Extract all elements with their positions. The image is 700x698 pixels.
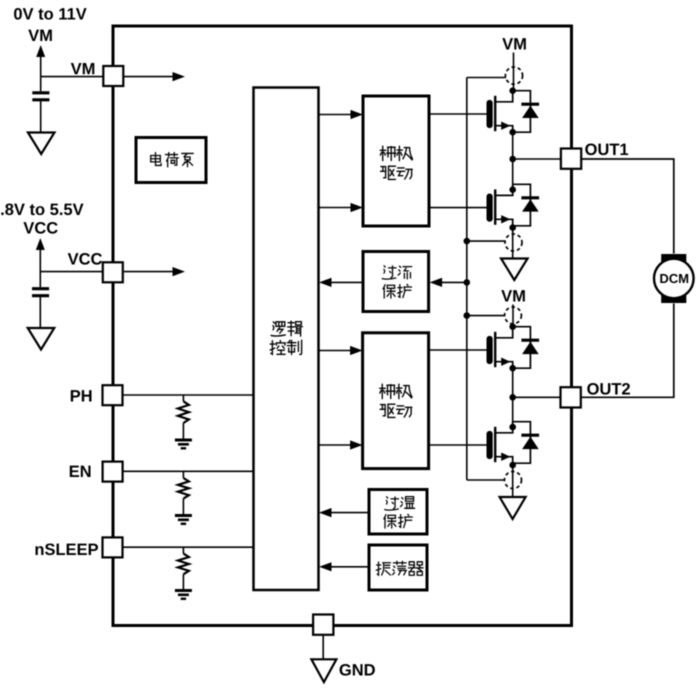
pin GND	[313, 615, 333, 635]
wire OUT2 to motor	[581, 304, 674, 398]
source node dot Q1	[509, 129, 516, 136]
overcurrent protection label	[382, 266, 396, 279]
rail junction dot at low FET 1	[464, 238, 471, 245]
overtemperature protection box 过温保护	[369, 490, 427, 535]
current-limit dashed circle VM2	[505, 307, 522, 324]
wire Q3 source to OUT2 node	[512, 368, 514, 397]
wire VM supply to pin	[41, 76, 104, 78]
ground symbol GND	[311, 659, 336, 682]
source node dot Q3	[509, 365, 516, 372]
motor terminal cap top	[661, 254, 686, 262]
pin label EN	[70, 466, 91, 477]
gate lead high-side FET 1	[429, 113, 487, 115]
arrow VCC into chip	[124, 271, 180, 273]
ground symbol R-PH	[175, 440, 192, 448]
net label VM bridge2	[501, 290, 525, 301]
arrow logic to gate drive 2 input A	[319, 350, 359, 352]
gate lead high-side FET 2	[429, 349, 487, 351]
oscillator label 振荡器	[376, 562, 390, 575]
wire Q2 source through current source to ground	[512, 228, 514, 259]
oscillator box 振荡器	[369, 545, 427, 590]
drain node dot Q4	[509, 424, 516, 431]
current sense rail vertical	[466, 78, 468, 481]
drain node dot Q2	[509, 186, 516, 193]
wire OUT2 node down to Q4 drain	[512, 397, 514, 427]
wire Q4 source through current source to ground	[512, 465, 514, 496]
pin VCC	[103, 262, 123, 282]
pin label VCC	[68, 253, 102, 265]
OUT2 node dot	[509, 394, 516, 401]
wire GND pin to ground symbol	[322, 635, 324, 660]
pin OUT2	[561, 387, 581, 407]
supply net label VCC	[23, 222, 57, 234]
pin VM	[103, 66, 123, 86]
overcurrent protection box 过流保护	[363, 252, 429, 312]
resistor R-nSLEEP pulldown	[182, 547, 184, 553]
motor terminal cap bottom	[661, 295, 686, 303]
arrow logic to gate drive 1 input B	[319, 207, 359, 209]
source node dot Q4	[509, 462, 516, 469]
pin EN	[103, 462, 123, 482]
wire OUT1 node to pin	[513, 158, 561, 160]
high-side NMOS Q3 with body diode	[487, 336, 493, 364]
pin OUT1	[561, 149, 581, 169]
rail junction dot at OCP tap	[464, 279, 471, 286]
gate lead low-side FET 2	[429, 444, 487, 446]
pin label OUT2	[587, 383, 630, 395]
pin label OUT1	[585, 143, 628, 155]
resistor R-PH pulldown	[182, 395, 184, 401]
rail branch to low FET 1 current source	[467, 240, 505, 242]
supply net label VM	[28, 30, 52, 41]
wire OUT1 node down to Q2 drain	[512, 159, 514, 190]
arrow overcurrent protection to logic	[324, 281, 363, 283]
current-limit dashed circle low bridge2	[505, 472, 522, 489]
logic control box 逻辑控制	[254, 88, 319, 591]
gate lead low-side FET 1	[429, 207, 487, 209]
capacitor C-VM	[40, 77, 42, 92]
ground symbol VCC cap	[28, 328, 55, 350]
supply range label 0V to 11V	[14, 8, 87, 20]
low-side NMOS Q4 with body diode	[487, 431, 493, 459]
wire EN to logic	[123, 470, 254, 472]
rail bottom branch to low FET 2 current source	[467, 479, 505, 481]
DC motor circle DCM	[654, 259, 694, 299]
resistor R-EN pulldown	[182, 471, 184, 478]
gate drive box 1 栅极驱动	[363, 96, 429, 226]
pin label VM	[71, 63, 95, 74]
wire cap to ground	[39, 297, 41, 328]
overtemperature protection label	[385, 497, 399, 510]
low-side NMOS Q2 with body diode	[487, 194, 493, 222]
high-side NMOS Q1 with body diode	[487, 100, 493, 128]
wire VM1 into current source	[513, 53, 515, 91]
OUT1 node dot	[509, 156, 516, 163]
ground symbol R-EN	[175, 516, 192, 524]
arrow logic to gate drive 1 input A	[319, 114, 359, 116]
charge pump box 电荷泵	[136, 138, 206, 183]
wire cap to ground	[40, 101, 42, 132]
arrow logic to gate drive 2 input B	[319, 444, 359, 446]
pin label PH	[71, 390, 92, 401]
wire VCC supply to pin	[40, 271, 103, 273]
logic control label 逻辑控制	[271, 322, 285, 336]
current-limit dashed circle low bridge1	[505, 234, 522, 251]
arrow rail to overcurrent protection	[434, 281, 467, 283]
wire PH to logic	[123, 394, 254, 396]
VM supply arrow up	[40, 55, 42, 77]
wire OUT2 node to pin	[513, 396, 561, 398]
pin label nSLEEP	[35, 543, 98, 555]
gate drive box 2 栅极驱动	[363, 333, 429, 469]
outer chip boundary box	[113, 26, 572, 626]
arrow overtemperature protection to logic	[324, 512, 369, 514]
drain node dot Q3	[509, 323, 516, 330]
pin nSLEEP	[103, 537, 123, 557]
gate drive 1 label	[380, 146, 396, 160]
wire nSLEEP to logic	[123, 546, 254, 548]
rail junction dot at VM2	[464, 312, 471, 319]
ground symbol VM cap	[28, 133, 55, 155]
VCC supply arrow up	[39, 248, 41, 272]
pin label GND	[340, 664, 375, 676]
arrow VM into chip	[124, 76, 181, 78]
rail top branch to VM1 source	[467, 77, 506, 79]
wire OUT1 to motor	[581, 159, 674, 254]
ground symbol bridge1	[501, 259, 528, 281]
supply range label 1.8V to 5.5V	[0, 203, 84, 215]
ground symbol R-nSLEEP	[175, 591, 192, 599]
current-limit dashed circle VM1	[505, 67, 522, 84]
ground symbol bridge2	[500, 497, 526, 519]
net label VM bridge1	[502, 38, 526, 49]
charge pump label 电荷泵	[151, 152, 161, 165]
wire Q1 source to OUT1 node	[512, 132, 514, 159]
capacitor C-VCC	[39, 272, 41, 287]
drain node dot Q1	[509, 87, 516, 94]
arrow oscillator to logic	[324, 566, 369, 568]
motor label DCM	[660, 274, 688, 283]
gate drive 2 label	[380, 384, 396, 398]
source node dot Q2	[509, 224, 516, 231]
rail branch to VM2 current source	[467, 315, 505, 317]
pin PH	[103, 385, 123, 405]
wire VM2 into current source	[512, 305, 514, 327]
